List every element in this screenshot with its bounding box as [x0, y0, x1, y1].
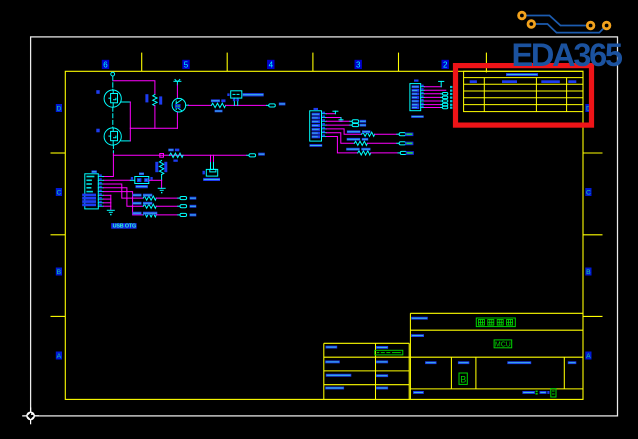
title MCU green box [494, 340, 512, 349]
label P1.0 [279, 103, 286, 106]
wire ground ladder [104, 195, 111, 210]
wire power to Q3 [176, 85, 178, 99]
resistor R6 [143, 196, 156, 200]
revision highlight box [456, 66, 592, 126]
wire pin3 to R6 [104, 184, 144, 198]
company name green box [476, 318, 515, 327]
transistor Q1 [104, 90, 121, 107]
port flag P3.0 [397, 133, 399, 135]
refdes P1 [92, 170, 97, 173]
power bar P3 [333, 111, 338, 114]
sheet inner border [65, 71, 583, 399]
svg-text:D: D [56, 106, 61, 113]
resistor row C [358, 151, 371, 155]
label SIZE [425, 361, 436, 364]
power port VCC circle [111, 72, 115, 76]
ground USB [107, 210, 114, 212]
ground mid [158, 188, 165, 190]
resistor R8 [143, 213, 156, 217]
CIRCUIT [82, 72, 452, 229]
svg-text:EDA365: EDA365 [512, 37, 624, 73]
wire crystal pins [210, 155, 212, 162]
connector P1 pin names [86, 176, 94, 193]
zone letter A right [585, 352, 591, 361]
sheet outer border [31, 37, 618, 416]
wire R6 to flag [156, 197, 178, 199]
port flag P3 pin3 [350, 120, 352, 122]
refdes P2 [414, 80, 419, 82]
wire P3 pin4 to flag [327, 124, 350, 126]
resistor row A [362, 132, 375, 136]
title block frame [324, 313, 583, 399]
wire bus down to USB pin1 [104, 155, 114, 176]
zone ticks left [51, 153, 66, 316]
wire row A to flag [375, 133, 397, 135]
label DRAWING NO [507, 361, 531, 364]
label relay type [243, 93, 264, 96]
wire P3 pin3 to flag [327, 120, 350, 122]
logo pad 1 [519, 12, 526, 19]
wire P2 pin2 [425, 89, 446, 91]
wire USB pin2 to FB [104, 179, 131, 181]
zone number 4 [267, 60, 274, 70]
wire Q3 emitter down to bus [176, 112, 178, 128]
zone number 5 [182, 60, 189, 70]
label SHEET OF [522, 391, 549, 395]
label SCALE [458, 361, 469, 364]
svg-text:4: 4 [269, 60, 274, 69]
svg-text:USB OTG: USB OTG [113, 224, 136, 230]
label P3.2 [406, 151, 414, 155]
wire row B to flag [367, 142, 397, 144]
capacitor stub P3 [339, 118, 343, 122]
relay K1 [231, 91, 242, 106]
refdes FB1 [139, 173, 144, 176]
FB pin number right [150, 177, 152, 180]
sheet origin marker [22, 408, 39, 425]
label P3 pin3 [360, 120, 366, 123]
port flag P3.2 [398, 152, 400, 154]
wire P3 pin5 to row A [327, 129, 362, 134]
resistor R2 vertical near Q1 [153, 94, 157, 105]
svg-text:2: 2 [443, 60, 448, 69]
svg-text:A: A [586, 353, 591, 360]
zone number 2 [442, 60, 449, 70]
revision table header title [506, 73, 538, 76]
ferrite bead FB1 [135, 177, 149, 184]
power bar P2 [439, 81, 444, 86]
logo pad 2 [528, 21, 535, 28]
zone ticks top [142, 53, 487, 73]
connector P3 pin numbers [322, 112, 325, 137]
label FB value [136, 185, 148, 188]
resistor R7 [143, 204, 156, 208]
zone ticks right [583, 153, 603, 316]
zone letter C right [585, 188, 591, 197]
wire main bus [113, 154, 246, 156]
label P2 MOLEX [411, 115, 424, 118]
connector P2 pin names [412, 85, 420, 109]
revision column labels [470, 80, 577, 83]
label REV [568, 361, 577, 364]
label RELEASE [325, 387, 344, 390]
label crystal type [203, 178, 220, 181]
label TITLE [411, 334, 424, 337]
connector P2 pin numbers [421, 85, 423, 108]
port flag row3 [178, 214, 180, 216]
label DATE 3 [376, 374, 388, 377]
wire Q1 to Q2 [112, 107, 114, 128]
connector P1 USB body [85, 174, 99, 209]
refdes Q3 highlighted [175, 104, 181, 108]
wire row C to flag [371, 152, 398, 154]
connector P2 pin stubs [421, 87, 425, 108]
label P3.0 [405, 133, 413, 137]
logo pad 4 [603, 22, 610, 29]
resistor R vertical mid [159, 160, 163, 174]
connector P3 pin names [312, 113, 320, 139]
svg-text:5: 5 [184, 60, 189, 69]
wire pin4 to R7 [104, 188, 144, 206]
zone number 6 [102, 60, 109, 70]
wire Q2 source down [112, 145, 114, 153]
label row2 [190, 205, 197, 208]
transistor Q3 [172, 98, 188, 112]
svg-text:3: 3 [356, 60, 361, 69]
wire R to ground [161, 175, 163, 181]
port flag P1.5 [247, 154, 249, 156]
port flag P3.1 [397, 142, 399, 144]
wire gate bus horizontal [130, 127, 177, 129]
port flag row1 [178, 197, 180, 199]
logo pad 3 [587, 22, 594, 29]
FB pin number left [131, 177, 133, 180]
wire R7 to flag [156, 205, 178, 207]
svg-text:6: 6 [103, 60, 108, 69]
label P3 pin4 [360, 124, 366, 127]
refdes Q1 [96, 90, 99, 94]
wire R4 to relay and port [226, 104, 267, 106]
wire gate vertical [129, 102, 131, 141]
zone letter D left [56, 104, 62, 113]
wire P3 pin1 to power [327, 113, 336, 115]
resistor row B [354, 141, 367, 145]
label row3 [190, 214, 197, 217]
wire VCC branch to R2 [113, 81, 155, 95]
port flag P3 pin4 [350, 124, 352, 126]
zone letter D right [585, 104, 591, 113]
port flag P1.0 [267, 104, 269, 106]
connector P3 pin stubs [322, 114, 327, 137]
label DATE 2 [376, 361, 388, 364]
labels P2 nets [450, 86, 452, 109]
label USB OTG [111, 223, 136, 230]
connector P1 shield labels [82, 194, 96, 207]
crystal Y1 [206, 169, 217, 176]
svg-text:B: B [586, 269, 591, 276]
label QUALITY CONTROL [326, 374, 352, 377]
refdes P3 [314, 108, 319, 110]
refdes K1 [227, 93, 229, 96]
svg-text:A: A [57, 353, 62, 360]
wire P3 pin6 to row B [327, 133, 355, 144]
label FILE [413, 391, 424, 394]
logo trace lower [535, 24, 604, 33]
wire P3 pin7 to row C [327, 137, 358, 153]
refdes Q2 [96, 129, 99, 133]
sheet number green box [551, 389, 556, 397]
zone letter B left [56, 268, 62, 277]
svg-text:C: C [56, 190, 61, 197]
transistor Q2 [104, 128, 121, 145]
wire P2 pin1 to power [425, 86, 442, 88]
label P1.5 [258, 153, 265, 156]
wire R8 to flag [156, 214, 178, 216]
wire Q3 to R4 [189, 104, 212, 106]
svg-text:B: B [57, 269, 62, 276]
refdes Y1 [203, 171, 205, 175]
gate stub Q1 [121, 101, 130, 103]
connector P3 body [310, 111, 322, 141]
zone number 3 [355, 60, 362, 70]
resistor R10 [169, 153, 183, 157]
logo trace upper [526, 16, 587, 26]
gate stub Q2 [121, 140, 130, 142]
junction marker square [160, 154, 164, 158]
resistor R4 [211, 103, 225, 107]
port flags P2 [441, 93, 448, 109]
label P3.1 [405, 142, 413, 146]
port flag row2 [178, 205, 180, 207]
connector P2 body [410, 84, 421, 111]
label row1 [190, 197, 197, 200]
wire pin5 to R8 [104, 192, 144, 215]
size B green box [459, 373, 467, 384]
drawn date green value [375, 350, 403, 355]
wire FB to ground net [149, 179, 161, 181]
wires P2 pins 3-7 to flags [425, 94, 441, 108]
wire VCC to Q1 [112, 76, 114, 90]
svg-text:B: B [460, 374, 466, 384]
svg-text:C: C [586, 190, 591, 197]
label DATE 1 [376, 346, 388, 349]
connector P1 pin numbers [99, 174, 102, 206]
label DATE 4 [376, 387, 388, 390]
revision table [464, 71, 583, 111]
zone letter C left [56, 188, 62, 197]
zone letter A left [56, 352, 62, 361]
label COMPANY [411, 317, 428, 320]
zone letter B right [585, 268, 591, 277]
wire R2 to gate bus [154, 106, 156, 129]
connector P1 pin stubs [98, 177, 103, 207]
power bar above Q3 [174, 80, 181, 86]
svg-text:MCU: MCU [495, 342, 511, 349]
label CHECKED [325, 361, 340, 364]
label P3 MOLEX [310, 144, 323, 147]
wire P3 pin2 to cap [327, 117, 342, 119]
label DRAWN [326, 346, 338, 349]
